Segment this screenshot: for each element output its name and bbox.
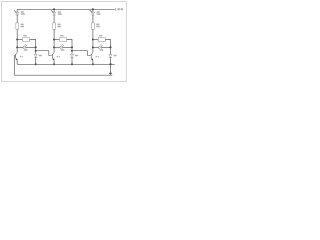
label R5 ref [60, 35, 63, 37]
label R6 ref [99, 35, 102, 37]
page border frame [2, 2, 127, 82]
label R4 ref [23, 35, 26, 37]
junction bottom bus C1 [35, 63, 37, 65]
ground symbol [109, 73, 112, 75]
wire LED to resistor R2 [53, 15, 55, 23]
LED D1 [14, 10, 19, 15]
label R2 ref [57, 24, 60, 26]
wire Q1 base to feedback line [13, 55, 15, 75]
label D1 value [21, 13, 25, 15]
wire coupling stage1 to Q2 base [36, 51, 52, 56]
resistor R6 [93, 39, 98, 41]
label D3 ref [97, 11, 100, 13]
junction D5 right [71, 46, 73, 48]
label VCC [117, 8, 120, 10]
diode D6 [93, 46, 99, 48]
transistor Q3 [90, 47, 93, 64]
diode D4 [17, 46, 23, 48]
junction coupling tap stage 1 [35, 50, 37, 52]
junction top bus D2 [53, 8, 55, 10]
resistor R2 [53, 23, 56, 29]
label D6 ref [100, 49, 104, 51]
junction bottom bus Q2 emitter [53, 63, 55, 65]
wire node to capacitor C3 [110, 47, 112, 54]
junction coupling tap stage 2 [71, 50, 73, 52]
wire node to capacitor C2 [71, 47, 73, 54]
junction bottom bus C3 [110, 63, 112, 65]
power flag VCC [114, 8, 116, 11]
junction bottom bus C2 [71, 63, 73, 65]
wire resistor R1 to nodes [16, 29, 18, 47]
wire bottom bus [17, 63, 115, 65]
junction D4 right [35, 46, 37, 48]
resistor R3 [92, 23, 95, 29]
wire coupling stage2 to Q3 base [72, 51, 90, 56]
LED D3 [90, 10, 95, 15]
transistor Q1 [14, 47, 17, 64]
wire bus to GND [110, 64, 112, 73]
wire VCC top bus [17, 8, 115, 10]
resistor R4 [17, 39, 22, 41]
label R3 value [96, 26, 100, 28]
label R3 ref [96, 24, 99, 26]
junction R5 left [53, 39, 55, 41]
wire C2 to bottom bus [71, 57, 73, 64]
junction D5 left [53, 46, 55, 48]
label D2 ref [58, 11, 61, 13]
label R1 ref [21, 24, 24, 26]
junction R4 left [16, 39, 18, 41]
capacitor C3 [109, 54, 112, 57]
label Q2 ref [57, 56, 58, 58]
wire LED to resistor R1 [16, 15, 18, 23]
label D4 ref [24, 49, 28, 51]
label R1 value [21, 26, 25, 28]
wire LED to resistor R3 [92, 15, 94, 23]
diode D5 [54, 46, 60, 48]
capacitor C1 [34, 54, 37, 57]
wire C3 to bottom bus [110, 57, 112, 64]
resistor R5 [54, 39, 59, 41]
label C2 ref [75, 55, 78, 57]
wire bus to LED D1 [16, 9, 18, 12]
junction D6 right [110, 46, 112, 48]
label C1 ref [39, 55, 42, 57]
resistor R1 [16, 23, 19, 29]
label D2 value [58, 13, 62, 15]
junction top bus D3 [92, 8, 94, 10]
label D5 ref [61, 49, 65, 51]
wire C1 to bottom bus [35, 57, 37, 64]
wire feedback bottom line [14, 74, 112, 76]
label D3 value [97, 13, 101, 15]
junction D4 left [16, 46, 18, 48]
label D1 ref [21, 11, 24, 13]
capacitor C2 [70, 54, 73, 57]
junction bottom bus GND [110, 63, 112, 65]
wire bus to LED D2 [53, 9, 55, 12]
wire resistor R3 to nodes [92, 29, 94, 47]
wire bus to LED D3 [92, 9, 94, 12]
wire node to capacitor C1 [35, 47, 37, 54]
transistor Q2 [51, 47, 54, 64]
junction bottom bus Q3 emitter [92, 63, 94, 65]
label R2 value [57, 26, 61, 28]
junction R6 left [92, 39, 94, 41]
label C3 ref [114, 55, 117, 57]
LED D2 [51, 10, 56, 15]
label Q1 ref [20, 56, 21, 58]
junction D6 left [92, 46, 94, 48]
wire resistor R2 to nodes [53, 29, 55, 47]
label Q3 ref [96, 56, 97, 58]
